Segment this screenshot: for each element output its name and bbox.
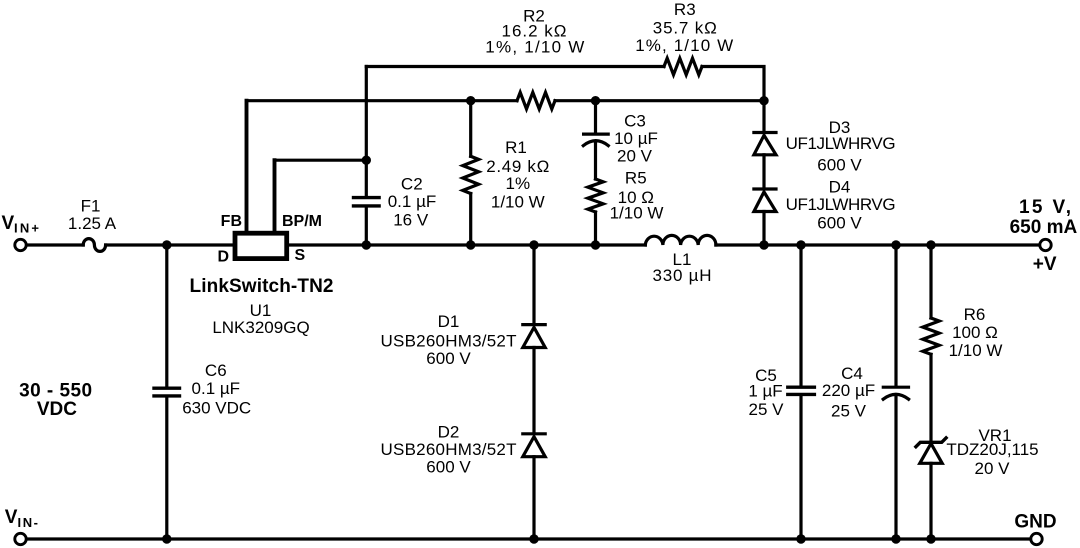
terminal VIN+ (15, 239, 26, 250)
svg-text:LNK3209GQ: LNK3209GQ (212, 318, 309, 337)
svg-text:FB: FB (221, 213, 242, 230)
node output label (1010, 197, 1078, 275)
node junction bus-C2 (362, 240, 371, 249)
wire top rail right segment with corner down to FB rail (702, 67, 764, 101)
svg-text:0.1 µF: 0.1 µF (388, 192, 437, 211)
node junction bus-C5 (796, 240, 805, 249)
label D4 value (786, 178, 896, 233)
svg-text:15 V,: 15 V, (1019, 197, 1071, 218)
label C3 value (614, 112, 658, 166)
label R6 value (949, 305, 1003, 360)
node junction bus-C4 (891, 240, 900, 249)
node VIN+ label (2, 213, 40, 236)
svg-text:UF1JLWHRVG: UF1JLWHRVG (786, 134, 896, 153)
node junction bus-R6 (926, 240, 935, 249)
wire main bus fuse to IC (106, 243, 233, 246)
svg-text:+V: +V (1033, 254, 1057, 275)
svg-text:R5: R5 (625, 168, 647, 187)
terminal VIN+ wire stub (26, 243, 83, 246)
svg-text:R6: R6 (964, 305, 986, 324)
svg-text:VDC: VDC (37, 399, 77, 420)
svg-text:0.1 µF: 0.1 µF (192, 379, 241, 398)
zener diode VR1 (916, 438, 946, 463)
node junction on FB rail at R1 (466, 96, 475, 105)
wire C4 top lead (894, 245, 897, 386)
svg-text:BP/M: BP/M (282, 213, 322, 230)
label D2 value (381, 423, 517, 477)
svg-text:F1: F1 (81, 197, 101, 216)
label R5 value (610, 168, 664, 222)
svg-text:330 µH: 330 µH (653, 266, 712, 285)
wire R5 bottom lead (594, 212, 597, 245)
svg-text:630 VDC: 630 VDC (182, 399, 251, 418)
wire BP/M rail (275, 159, 367, 162)
node junction bottom-C6 (162, 534, 171, 543)
label U1 LinkSwitch-TN2 (190, 276, 334, 337)
svg-text:600 V: 600 V (426, 458, 471, 477)
wire C2 branch vertical (top rail corner down through BP/M node to C2) (365, 67, 368, 196)
IC U1 pin BP/M wire (273, 160, 277, 233)
op-amp U1 LinkSwitch-TN2 IC body (235, 233, 287, 258)
wire D1 top lead (532, 245, 535, 323)
wire C5 bottom lead (799, 396, 802, 539)
wire D3-D4 link (762, 155, 765, 188)
wire C3 top lead (594, 101, 597, 133)
wire R6-VR1 link (929, 354, 932, 439)
node junction bottom-D2 (529, 534, 538, 543)
node junction BP/M-C2 (362, 156, 371, 165)
IC U1 pin FB wire (245, 101, 249, 233)
label L1 value (653, 250, 712, 285)
node VIN- label (5, 507, 38, 530)
wire main bus IC to L1 (289, 243, 645, 246)
label D1 value (381, 312, 517, 368)
node junction bus-C6 (162, 240, 171, 249)
svg-text:1%, 1/10 W: 1%, 1/10 W (485, 38, 584, 57)
label F1 value (68, 197, 117, 234)
svg-text:LinkSwitch-TN2: LinkSwitch-TN2 (190, 276, 334, 297)
wire R6 top lead (929, 245, 932, 318)
svg-text:UF1JLWHRVG: UF1JLWHRVG (786, 195, 896, 214)
svg-text:D1: D1 (438, 312, 460, 331)
fuse F1 (83, 239, 105, 252)
diode D3 (754, 133, 776, 155)
node junction bus-R1 (466, 240, 475, 249)
svg-text:35.7 kΩ: 35.7 kΩ (653, 19, 717, 38)
svg-text:600 V: 600 V (426, 349, 471, 368)
svg-text:IN-: IN- (18, 515, 39, 530)
diode D4 (754, 189, 776, 212)
resistor R5 (588, 179, 603, 212)
svg-text:R1: R1 (505, 138, 527, 157)
terminal GND (1031, 533, 1042, 544)
svg-text:V: V (2, 213, 15, 234)
inductor L1 (645, 235, 716, 245)
svg-text:1%: 1% (506, 174, 531, 193)
resistor R1 (463, 156, 479, 193)
label R2 value (485, 7, 584, 57)
svg-text:20 V: 20 V (617, 147, 653, 166)
node junction bottom-C4 (891, 534, 900, 543)
label D3 value (786, 118, 896, 174)
svg-text:1%, 1/10 W: 1%, 1/10 W (635, 36, 733, 55)
resistor R3 (664, 58, 702, 75)
svg-text:C3: C3 (624, 112, 646, 131)
node junction bus-D1 (529, 240, 538, 249)
wire R1 top lead (469, 101, 472, 157)
svg-text:C2: C2 (401, 175, 423, 194)
svg-text:25 V: 25 V (831, 402, 867, 421)
label VR1 value (946, 426, 1038, 478)
wire C2 bottom lead (365, 208, 368, 245)
svg-text:100 Ω: 100 Ω (952, 323, 998, 342)
node junction bottom-VR1 (926, 534, 935, 543)
svg-text:C6: C6 (205, 361, 227, 380)
wire C6 branch top lead (165, 245, 168, 387)
svg-text:D: D (218, 249, 230, 266)
wire FB rail right segment (555, 99, 764, 102)
node junction on FB rail at C3 (591, 96, 600, 105)
label C4 value (822, 364, 875, 421)
svg-text:TDZ20J,115: TDZ20J,115 (946, 440, 1038, 459)
resistor R2 (517, 92, 555, 109)
wire main bus L1 to +V terminal (716, 243, 1040, 246)
svg-text:D4: D4 (829, 178, 851, 197)
wire R1 bottom lead (469, 194, 472, 246)
svg-text:D2: D2 (438, 423, 460, 442)
node junction bus-D4 (759, 240, 768, 249)
svg-text:1.25 A: 1.25 A (68, 214, 117, 233)
svg-text:16 V: 16 V (393, 211, 429, 230)
diode D1 (523, 325, 545, 348)
svg-text:V: V (5, 507, 18, 528)
svg-text:R3: R3 (674, 0, 696, 19)
svg-text:S: S (295, 247, 306, 264)
wire C5 top lead (799, 245, 802, 386)
wire C6 bottom lead (165, 398, 168, 539)
label R3 value (635, 0, 733, 55)
wire bottom bus (26, 537, 1030, 540)
label R1 value (486, 138, 549, 212)
label C5 value (748, 366, 784, 419)
svg-text:20 V: 20 V (975, 459, 1011, 478)
wire D2 bottom lead (532, 457, 535, 539)
terminal VIN- (15, 533, 26, 544)
capacitor C3 (583, 134, 608, 146)
svg-text:1 µF: 1 µF (748, 382, 782, 401)
svg-text:600 V: 600 V (817, 214, 862, 233)
node input voltage label (19, 380, 92, 420)
svg-text:GND: GND (1014, 512, 1056, 533)
capacitor C6 (154, 388, 180, 396)
node junction on FB rail at D3 (759, 96, 768, 105)
resistor R6 (923, 318, 939, 354)
svg-text:10 µF: 10 µF (614, 129, 658, 148)
svg-text:USB260HM3/52T: USB260HM3/52T (381, 331, 517, 350)
svg-text:25 V: 25 V (749, 400, 785, 419)
wire D3 top lead (762, 101, 765, 131)
svg-text:650 mA: 650 mA (1010, 217, 1078, 238)
svg-text:USB260HM3/52T: USB260HM3/52T (381, 440, 517, 459)
label C2 value (388, 175, 437, 230)
wire top rail left segment (366, 65, 664, 68)
svg-text:600 V: 600 V (817, 155, 862, 174)
wire C4 bottom lead (894, 396, 897, 540)
terminal +V (1040, 239, 1051, 250)
wire D4 bottom lead (762, 212, 765, 246)
wire FB rail left segment (247, 99, 518, 102)
wire D1-D2 link (532, 348, 535, 433)
capacitor C5 (788, 387, 815, 394)
svg-text:1/10 W: 1/10 W (610, 203, 664, 222)
svg-text:1/10 W: 1/10 W (491, 193, 545, 212)
label C6 value (182, 361, 251, 418)
svg-text:1/10 W: 1/10 W (949, 341, 1003, 360)
capacitor C2 (354, 198, 380, 206)
node junction bus-R5 (591, 240, 600, 249)
node junction bottom-C5 (796, 534, 805, 543)
svg-text:220 µF: 220 µF (822, 381, 875, 400)
diode D2 (523, 434, 545, 457)
wire VR1 bottom lead (929, 463, 932, 539)
capacitor C4 (883, 387, 908, 399)
wire C3-R5 link (594, 142, 597, 180)
